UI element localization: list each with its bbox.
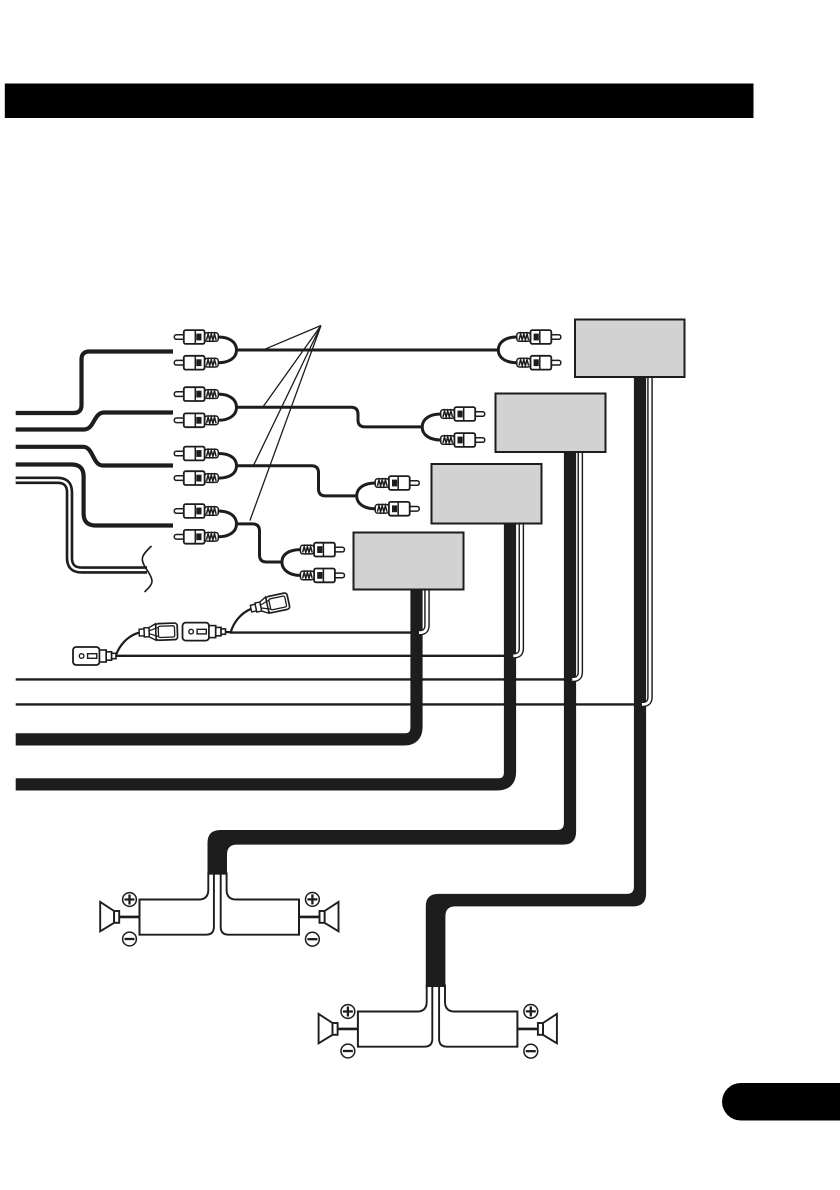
wire W4 from head unit to RCA pair 4 — [16, 465, 173, 526]
amplifier box 4 feed cable (thick) — [16, 590, 417, 740]
wire L3 to box 2 — [16, 678, 573, 680]
box 3 system cable (outlined) — [513, 524, 522, 656]
box 4 system cable (outlined) — [419, 590, 428, 633]
speaker harness 1 — [100, 873, 338, 947]
wire W3 from head unit to RCA pair 3 — [16, 447, 173, 466]
wire L2 to box 3 — [115, 655, 513, 657]
spade sleeve A — [139, 623, 178, 641]
amplifier box 4 — [354, 533, 464, 590]
spade sleeve A pigtail — [116, 633, 140, 656]
spade sleeve B — [249, 593, 290, 617]
amplifier box 3 — [432, 464, 542, 524]
RCA plugs pair 4 right — [300, 543, 344, 557]
speaker harness 2 — [319, 985, 557, 1059]
wire L4 to box 1 — [16, 703, 642, 705]
cable break mark — [142, 546, 152, 592]
RCA plugs pair 3 left — [174, 447, 218, 461]
RCA pair 3 interconnect cable — [218, 454, 236, 479]
amplifier box 1 — [575, 320, 685, 378]
box 1 system cable (outlined) — [642, 377, 651, 704]
page corner tab — [722, 1083, 840, 1121]
spade sleeve B pigtail — [231, 609, 252, 633]
RCA plugs pair 1 left — [174, 330, 218, 344]
amplifier box 1 feed cable (thick) — [426, 377, 646, 987]
RCA plugs pair 2 left — [174, 387, 218, 401]
antenna cable (outlined) from head unit — [16, 480, 147, 570]
RCA plugs pair 1 right — [517, 330, 561, 344]
amplifier box 2 — [496, 394, 606, 453]
amplifier box 3 feed cable (thick) — [16, 524, 510, 785]
spade lug B — [183, 623, 226, 641]
wire L1 to box 4 — [230, 631, 419, 633]
spade lug B wire — [224, 631, 232, 634]
amplifier box 2 feed cable (thick) — [208, 452, 577, 875]
RCA pair 2 interconnect cable — [218, 394, 236, 420]
RCA plugs pair 3 right — [375, 476, 419, 490]
RCA pair 1 interconnect cable — [218, 337, 236, 363]
RCA plugs pair 4 left — [174, 504, 218, 518]
spade lug A — [73, 647, 116, 665]
wire W1 from head unit to RCA pair 1 — [16, 352, 173, 414]
RCA plugs pair 2 right — [441, 407, 485, 421]
box 2 system cable (outlined) — [572, 452, 581, 679]
leader line fan — [250, 326, 321, 521]
wire W2 from head unit to RCA pair 2 — [16, 413, 173, 430]
RCA pair 4 interconnect cable — [218, 511, 236, 537]
header black bar — [5, 84, 754, 119]
